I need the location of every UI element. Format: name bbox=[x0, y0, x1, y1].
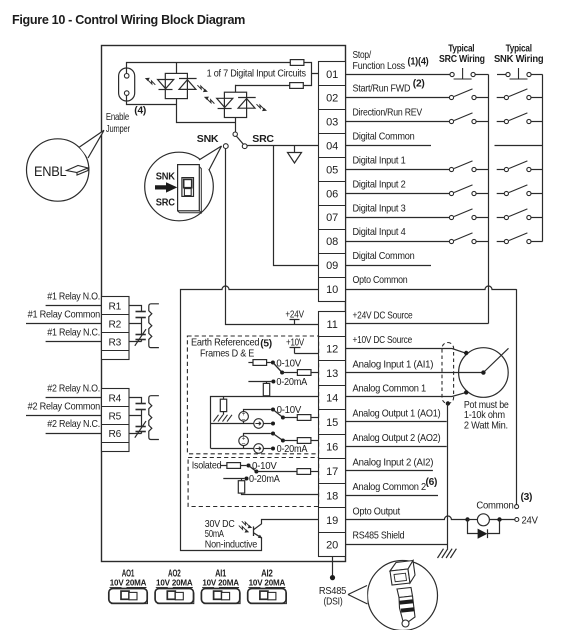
AI1 0-10V input path bbox=[248, 362, 253, 364]
SRC switch T03 bbox=[449, 113, 476, 124]
svg-text:+10V DC Source: +10V DC Source bbox=[353, 335, 413, 346]
svg-text:SRC: SRC bbox=[156, 198, 176, 209]
svg-text:+24V: +24V bbox=[285, 309, 304, 320]
SRC switch T07 bbox=[449, 209, 476, 220]
SRC switch T05 bbox=[449, 161, 476, 172]
AO1 0-10V path bbox=[244, 410, 271, 412]
svg-text:20: 20 bbox=[326, 539, 338, 551]
wire T19 with hop over drain bbox=[346, 516, 468, 520]
SNK switch T08 bbox=[504, 233, 531, 244]
svg-text:0-20mA: 0-20mA bbox=[249, 474, 280, 485]
analog common 1 rail bbox=[211, 397, 319, 449]
svg-text:Non-inductive: Non-inductive bbox=[205, 539, 258, 550]
node junction right bbox=[497, 517, 501, 521]
SRC bus vertical bbox=[488, 75, 490, 324]
svg-text:Figure 10 - Control Wiring Blo: Figure 10 - Control Wiring Block Diagram bbox=[12, 12, 245, 27]
terminal numbers 01-20 bbox=[326, 69, 338, 552]
relay coil circle bbox=[468, 519, 478, 521]
wire T02 bbox=[346, 97, 449, 99]
svg-text:06: 06 bbox=[326, 188, 338, 200]
svg-text:#2 Relay N.C.: #2 Relay N.C. bbox=[47, 419, 100, 430]
svg-text:(4): (4) bbox=[134, 106, 146, 117]
svg-text:Opto Common: Opto Common bbox=[353, 275, 408, 286]
wire SNK node down to +24V rail bbox=[226, 149, 319, 325]
AO2 current source bbox=[211, 448, 254, 450]
SNK stop switch stub T01 bbox=[497, 74, 506, 76]
terminal strip boxes 01-10 bbox=[319, 62, 346, 302]
svg-text:#1 Relay N.O.: #1 Relay N.O. bbox=[47, 292, 100, 303]
AI1 0-20mA input path bbox=[248, 381, 271, 383]
opto 2 light arrows bbox=[207, 99, 214, 104]
SNK switch T02 bbox=[504, 89, 531, 100]
wire stub T05 SNK switch bbox=[497, 169, 505, 171]
svg-text:05: 05 bbox=[326, 164, 338, 176]
svg-text:10V 20MA: 10V 20MA bbox=[110, 578, 147, 588]
AI2 0-10V path bbox=[220, 465, 227, 467]
shield drain junction bbox=[446, 401, 450, 405]
svg-text:SNK Wiring: SNK Wiring bbox=[494, 54, 543, 65]
svg-text:Function Loss: Function Loss bbox=[353, 61, 406, 72]
AO1 voltage source bbox=[239, 412, 249, 422]
AI2 selector lever bbox=[249, 466, 257, 472]
svg-text:Frames D & E: Frames D & E bbox=[200, 349, 255, 360]
svg-text:#2 Relay Common: #2 Relay Common bbox=[28, 401, 100, 412]
AO2 selector lever bbox=[273, 434, 283, 441]
ENBL balloon bbox=[27, 139, 89, 201]
wire T03 bbox=[346, 121, 449, 123]
AO2 voltage source bbox=[239, 436, 249, 446]
optocoupler 1 bbox=[158, 62, 197, 98]
AI2 dip switch bbox=[248, 569, 287, 604]
wire jumper bottom bbox=[127, 96, 177, 105]
AO1 current source bbox=[211, 423, 254, 425]
svg-text:Isolated: Isolated bbox=[192, 460, 222, 471]
svg-text:R3: R3 bbox=[109, 337, 122, 348]
svg-text:Digital Common: Digital Common bbox=[353, 132, 415, 143]
wire common to (3) terminal bbox=[516, 289, 518, 505]
svg-text:04: 04 bbox=[326, 141, 338, 153]
AI2 0-20mA path bbox=[223, 478, 244, 480]
svg-text:19: 19 bbox=[326, 515, 338, 527]
earth triangle on digital common bbox=[288, 146, 302, 164]
svg-text:Digital Input 4: Digital Input 4 bbox=[353, 227, 407, 238]
wire stub T06 SNK switch bbox=[497, 193, 505, 195]
svg-text:R6: R6 bbox=[109, 429, 122, 440]
SRC switch T02 bbox=[449, 89, 476, 100]
jumper cap icon bbox=[67, 166, 89, 173]
common open terminal (3) bbox=[515, 505, 519, 509]
shield drain wire bbox=[447, 404, 449, 549]
svg-text:15: 15 bbox=[326, 417, 338, 429]
svg-text:+24V DC Source: +24V DC Source bbox=[353, 310, 413, 321]
wire T07 SNK switch to bus bbox=[531, 217, 543, 219]
relay 2 coil bbox=[149, 396, 159, 440]
drive outer enclosure box bbox=[102, 46, 346, 562]
svg-text:01: 01 bbox=[326, 69, 338, 81]
svg-text:Digital Input 3: Digital Input 3 bbox=[353, 203, 407, 214]
opto 1 bottom wire bbox=[177, 99, 236, 123]
svg-text:0-10V: 0-10V bbox=[276, 358, 301, 369]
svg-text:0-20mA: 0-20mA bbox=[277, 444, 308, 455]
svg-text:Digital Input 2: Digital Input 2 bbox=[353, 179, 407, 190]
SNK switch T05 bbox=[504, 161, 531, 172]
relay 2 contacts bbox=[129, 398, 146, 438]
svg-text:(2): (2) bbox=[413, 78, 425, 89]
svg-text:SRC Wiring: SRC Wiring bbox=[439, 54, 485, 65]
SRC stop switch T01 bbox=[450, 68, 475, 79]
wire T01 SNK switch to bus bbox=[531, 74, 542, 76]
svg-text:Analog Input 1 (AI1): Analog Input 1 (AI1) bbox=[353, 359, 434, 370]
svg-text:16: 16 bbox=[326, 441, 338, 453]
SNK stop switch T01 bbox=[506, 68, 531, 79]
svg-text:R5: R5 bbox=[109, 411, 122, 422]
svg-text:#1 Relay N.C.: #1 Relay N.C. bbox=[47, 327, 100, 338]
wire stub T08 SNK switch bbox=[497, 241, 505, 243]
svg-text:Common: Common bbox=[476, 500, 513, 511]
wire T01 SRC switch to bus bbox=[475, 74, 488, 76]
svg-text:18: 18 bbox=[326, 490, 338, 502]
opto common internal wire T10 bbox=[181, 286, 319, 551]
SNK switch T06 bbox=[504, 185, 531, 196]
svg-text:0-20mA: 0-20mA bbox=[276, 377, 307, 388]
svg-text:R4: R4 bbox=[109, 394, 122, 405]
svg-text:RS485: RS485 bbox=[319, 586, 347, 597]
svg-text:Direction/Run REV: Direction/Run REV bbox=[353, 108, 423, 119]
RS485 drop from terminal 20 bbox=[332, 557, 334, 578]
svg-text:10V 20MA: 10V 20MA bbox=[156, 578, 193, 588]
svg-text:08: 08 bbox=[326, 236, 338, 248]
svg-text:10V 20MA: 10V 20MA bbox=[249, 578, 286, 588]
AI1 shunt resistor bbox=[266, 382, 268, 384]
svg-text:Digital Input 1: Digital Input 1 bbox=[353, 156, 407, 167]
AI2 shunt resistor bbox=[241, 478, 243, 481]
AI1 series resistor to T13 bbox=[282, 372, 297, 374]
wire T02 SNK switch to bus bbox=[531, 97, 543, 99]
optocoupler 2 bbox=[217, 85, 256, 118]
svg-text:SNK: SNK bbox=[156, 171, 176, 182]
photo arrows bbox=[242, 521, 249, 526]
svg-text:(1)(4): (1)(4) bbox=[408, 57, 429, 68]
svg-text:13: 13 bbox=[326, 368, 338, 380]
AO1 series resistor to T15 bbox=[297, 415, 311, 421]
SNK switch T02 bbox=[497, 97, 505, 99]
wire T08 SRC switch to bus bbox=[476, 241, 488, 243]
svg-text:Pot must be: Pot must be bbox=[464, 400, 509, 411]
svg-text:R2: R2 bbox=[109, 320, 122, 331]
AO2 dip switch bbox=[155, 569, 194, 604]
AI2 series resistor to T17 bbox=[297, 469, 311, 475]
svg-text:#2 Relay N.O.: #2 Relay N.O. bbox=[47, 384, 100, 395]
svg-text:Start/Run FWD: Start/Run FWD bbox=[353, 84, 411, 95]
wire stub T03 SNK switch bbox=[497, 121, 505, 123]
AO1 dip switch bbox=[109, 569, 148, 604]
svg-text:Analog Input 2 (AI2): Analog Input 2 (AI2) bbox=[353, 457, 434, 468]
AO2 0-10V path bbox=[244, 434, 271, 437]
wire T04 underline bbox=[346, 145, 431, 147]
wire T07 SRC switch to bus bbox=[476, 217, 488, 219]
svg-text:03: 03 bbox=[326, 117, 338, 129]
svg-text:ENBL: ENBL bbox=[34, 164, 67, 179]
svg-text:2 Watt Min.: 2 Watt Min. bbox=[464, 421, 508, 432]
svg-text:24V: 24V bbox=[522, 516, 539, 527]
svg-text:1-10k ohm: 1-10k ohm bbox=[464, 410, 505, 421]
SNK switch T03 bbox=[504, 113, 531, 124]
svg-text:Typical: Typical bbox=[506, 43, 533, 54]
svg-text:14: 14 bbox=[326, 392, 338, 404]
svg-text:#1 Relay Common: #1 Relay Common bbox=[28, 310, 100, 321]
svg-text:Stop/: Stop/ bbox=[353, 50, 372, 61]
svg-text:09: 09 bbox=[326, 260, 338, 272]
diode bbox=[478, 529, 487, 538]
SNK/SRC balloon bbox=[145, 152, 214, 221]
AI1 selector lever bbox=[273, 363, 282, 373]
svg-text:10V 20MA: 10V 20MA bbox=[202, 578, 239, 588]
SNK switch T07 bbox=[504, 209, 531, 220]
SRC node bbox=[242, 144, 247, 149]
grounding resistor bbox=[223, 397, 225, 399]
opto 1 light arrows bbox=[148, 80, 155, 85]
wire T02 SRC switch to bus bbox=[476, 97, 488, 99]
node junction left bbox=[465, 517, 469, 521]
wire T06 SNK switch to bus bbox=[531, 193, 543, 195]
relay 1 contacts bbox=[129, 306, 146, 346]
SNK bus vertical bbox=[542, 75, 544, 242]
svg-text:R1: R1 bbox=[109, 302, 122, 313]
wire stub T07 SNK switch bbox=[497, 217, 505, 219]
AO1 selector lever bbox=[273, 410, 283, 418]
svg-text:+10V: +10V bbox=[286, 337, 304, 348]
SRC switch T06 bbox=[449, 185, 476, 196]
RJ45 connector icon bbox=[390, 561, 415, 626]
relay terminal boxes R1-R3 bbox=[102, 297, 130, 360]
svg-text:Analog Common 2: Analog Common 2 bbox=[353, 482, 427, 493]
SNK node bbox=[223, 144, 228, 149]
wire T10 with hop over SRC bus bbox=[346, 286, 517, 290]
top wire from jumper to input resistor bbox=[127, 63, 291, 74]
opto output phototransistor bbox=[254, 520, 319, 538]
wire resistor link to T01 bbox=[236, 63, 319, 86]
svg-text:Enable: Enable bbox=[106, 112, 130, 123]
enable jumper pill bbox=[119, 68, 135, 101]
svg-text:Typical: Typical bbox=[448, 43, 475, 54]
SNK/SRC selector bbox=[235, 118, 237, 133]
svg-text:10: 10 bbox=[326, 284, 338, 296]
wire SRC node to digital common T04 bbox=[247, 145, 318, 147]
svg-text:Digital Common: Digital Common bbox=[353, 251, 415, 262]
svg-text:12: 12 bbox=[326, 343, 338, 355]
shield dashed oval bbox=[442, 343, 454, 404]
svg-text:17: 17 bbox=[326, 466, 338, 478]
wire SRC to T09 bbox=[274, 146, 319, 266]
wire T03 SNK switch to bus bbox=[531, 121, 543, 123]
SRC switch T08 bbox=[449, 233, 476, 244]
svg-text:(6): (6) bbox=[426, 477, 438, 488]
svg-text:RS485 Shield: RS485 Shield bbox=[353, 531, 405, 542]
wire T05 SNK switch to bus bbox=[531, 169, 543, 171]
chassis ground hatch bbox=[214, 415, 233, 422]
svg-text:Jumper: Jumper bbox=[106, 124, 131, 135]
svg-text:02: 02 bbox=[326, 93, 338, 105]
svg-text:1 of 7 Digital Input Circuits: 1 of 7 Digital Input Circuits bbox=[207, 69, 306, 80]
24V open terminal bbox=[515, 518, 519, 522]
svg-text:07: 07 bbox=[326, 212, 338, 224]
svg-text:(3): (3) bbox=[521, 492, 533, 503]
relay terminal boxes R4-R6 bbox=[102, 389, 130, 452]
svg-text:11: 11 bbox=[326, 319, 337, 331]
arrow bbox=[155, 182, 177, 192]
dip switch icon bbox=[178, 165, 200, 211]
snubber diode loop bbox=[468, 520, 500, 534]
svg-text:Earth Referenced: Earth Referenced bbox=[191, 337, 260, 348]
wire T08 SNK switch to bus bbox=[531, 241, 543, 243]
RS485 balloon bbox=[368, 561, 438, 630]
potentiometer bbox=[459, 348, 509, 398]
svg-text:Analog Output 1 (AO1): Analog Output 1 (AO1) bbox=[353, 408, 441, 419]
earth ground T20 bbox=[438, 549, 457, 558]
wire T03 SRC switch to bus bbox=[476, 121, 488, 123]
svg-text:SRC: SRC bbox=[252, 134, 274, 145]
input resistor top bbox=[290, 60, 304, 66]
svg-text:SNK: SNK bbox=[197, 134, 219, 145]
wire T01 to SRC switch bbox=[346, 74, 450, 76]
terminal strip boxes 11-20 bbox=[319, 312, 346, 557]
relay 1 coil bbox=[149, 304, 159, 348]
svg-text:(DSI): (DSI) bbox=[324, 597, 343, 608]
SNK common wire T04 bbox=[495, 145, 543, 147]
wire T06 SRC switch to bus bbox=[476, 193, 488, 195]
AO2 series resistor to T16 bbox=[297, 438, 311, 444]
wire T05 SRC switch to bus bbox=[476, 169, 488, 171]
input resistor bottom bbox=[290, 83, 304, 89]
svg-text:Analog Output 2 (AO2): Analog Output 2 (AO2) bbox=[353, 433, 441, 444]
svg-text:Analog Common 1: Analog Common 1 bbox=[353, 384, 427, 395]
svg-text:Opto Output: Opto Output bbox=[353, 506, 401, 517]
svg-text:(5): (5) bbox=[260, 338, 272, 349]
AI1 dip switch bbox=[201, 569, 240, 604]
